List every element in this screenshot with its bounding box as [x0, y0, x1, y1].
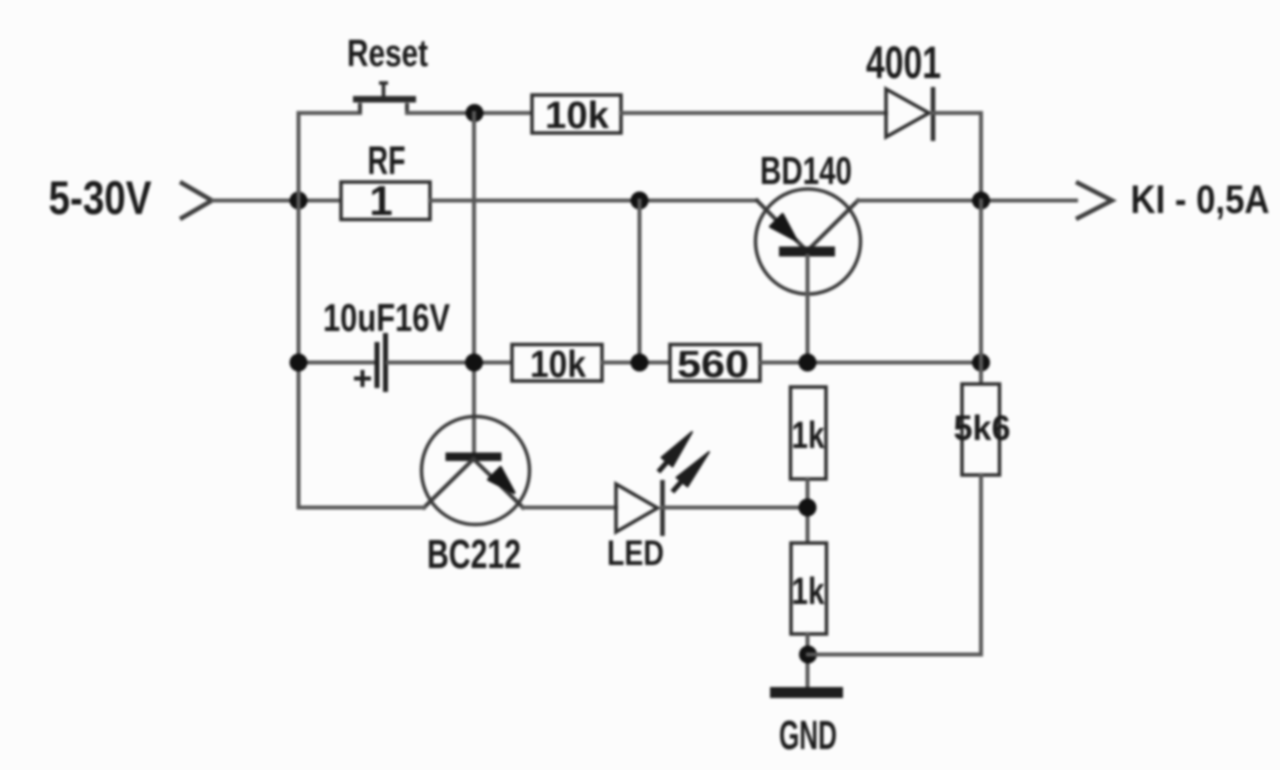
transistor Q2 BD140 circle	[756, 189, 861, 294]
resistor 1k lower box	[791, 543, 827, 634]
wire cap to 10k mid	[388, 361, 512, 365]
node E junction dot	[290, 354, 308, 372]
LED D2 light arrow 2	[674, 482, 681, 490]
LED D2 light arrow 1	[660, 462, 667, 470]
transistor Q1 base bar	[446, 453, 502, 462]
wire input to RF	[213, 199, 341, 203]
transistor Q2 emitter diagonal	[757, 201, 807, 252]
transistor Q2 base bar	[779, 247, 835, 257]
diode D1 cathode bar	[931, 87, 936, 141]
wire 10k to 560	[602, 361, 670, 365]
svg-text:10k: 10k	[530, 344, 587, 386]
resistor 1k upper box	[791, 387, 827, 479]
switch Reset contacts	[360, 103, 407, 113]
wire left rail to BC212	[299, 506, 425, 510]
wire LED to 1k node	[663, 506, 808, 510]
transistor Q1 emitter diagonal	[474, 459, 524, 508]
node G junction dot	[631, 354, 649, 372]
wire vertical rail x474	[472, 113, 476, 456]
ground bar	[770, 687, 843, 698]
node B junction dot top	[466, 104, 484, 122]
svg-text:BC212: BC212	[427, 531, 521, 577]
switch Reset plunger	[379, 83, 388, 96]
node I junction dot	[972, 354, 990, 372]
node F junction dot	[465, 354, 483, 372]
wire diode to right rail	[933, 113, 981, 201]
capacitor C1 plates	[377, 333, 386, 392]
wire 1k to gnd node	[806, 634, 810, 687]
transistor Q1 left diagonal	[424, 459, 474, 508]
node H junction dot	[799, 354, 817, 372]
wire 1k to node	[806, 479, 810, 543]
svg-text:KI - 0,5A: KI - 0,5A	[1131, 178, 1270, 222]
svg-text:5-30V: 5-30V	[49, 171, 153, 224]
LED D2 triangle	[616, 484, 658, 532]
wire BD140 base down	[806, 256, 810, 363]
resistor 10k top box	[532, 95, 621, 133]
svg-text:LED: LED	[607, 534, 664, 573]
svg-text:BD140: BD140	[760, 150, 852, 193]
wire 5k6 to gnd rail	[808, 475, 981, 655]
resistor RF box	[341, 182, 430, 220]
svg-text:1k: 1k	[792, 415, 826, 457]
node C junction dot	[631, 192, 649, 210]
svg-text:5k6: 5k6	[954, 409, 1011, 448]
transistor Q1 BC212 circle	[422, 417, 530, 525]
wire mid rail left	[299, 361, 375, 365]
node K junction dot	[799, 646, 817, 664]
svg-text:560: 560	[677, 344, 749, 386]
wire top rail left segment	[299, 111, 361, 115]
svg-text:10k: 10k	[545, 95, 610, 137]
transistor Q2 emitter arrow	[771, 215, 797, 241]
node J junction dot	[799, 499, 817, 517]
wire vertical x639	[638, 201, 642, 363]
node A junction dot	[290, 192, 308, 210]
wire top rail right of switch	[407, 111, 532, 115]
resistor 5k6 box	[962, 384, 1000, 475]
output arrow	[1076, 182, 1112, 219]
wire BD140 collector to out	[858, 199, 1076, 203]
LED D2 cathode bar	[660, 480, 665, 536]
svg-text:1: 1	[369, 177, 392, 224]
svg-text:1k: 1k	[792, 571, 826, 613]
svg-text:GND: GND	[779, 712, 837, 758]
svg-text:4001: 4001	[866, 37, 941, 88]
wire left rail vertical	[297, 113, 301, 508]
wire right rail mid	[979, 201, 983, 385]
resistor 560 box	[670, 345, 760, 382]
node D junction dot	[972, 192, 990, 210]
diode D1 triangle	[886, 89, 929, 137]
wire 10k to diode	[621, 111, 886, 115]
transistor Q2 collector diagonal	[807, 201, 858, 252]
resistor 10k mid box	[512, 345, 602, 382]
capacitor C1 plus sign	[354, 370, 371, 387]
wire RF to BD140	[430, 199, 757, 203]
transistor Q1 emitter arrow	[489, 468, 515, 493]
svg-text:Reset: Reset	[347, 33, 428, 75]
switch Reset bar	[353, 96, 416, 103]
wire 560 to right rail	[760, 361, 981, 365]
input arrow	[180, 182, 212, 219]
wire BC212 to LED	[523, 506, 616, 510]
